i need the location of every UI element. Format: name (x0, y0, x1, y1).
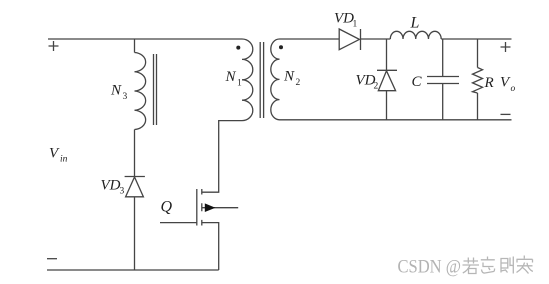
svg-text:VD: VD (101, 178, 121, 194)
wire: capacitor C bottom branch (442, 84, 444, 120)
svg-text:R: R (484, 75, 494, 91)
diode VD2 triangle (378, 71, 395, 91)
arrow of MOSFET Q (205, 203, 216, 212)
svg-text:1: 1 (237, 79, 242, 89)
wire: Q source to bottom rail (202, 223, 219, 270)
diode VD2 cathode bar (377, 69, 397, 71)
polarity dot N2 (279, 45, 283, 49)
wire: secondary bottom rail (280, 119, 512, 121)
plus sign: input (49, 41, 59, 51)
wire: gate lead (160, 222, 197, 224)
svg-text:Q: Q (161, 199, 173, 216)
plus sign: output (501, 42, 511, 52)
minus sign: input (47, 258, 57, 260)
transistor Q channel segments (201, 189, 203, 226)
wire: N1 bottom lead to MOSFET drain (202, 121, 242, 193)
minus sign: output (501, 113, 511, 115)
wire: resistor R bottom branch (477, 93, 479, 120)
winding N2 (transformer secondary) (271, 39, 280, 120)
svg-text:in: in (60, 155, 68, 165)
diode VD1 triangle (339, 29, 359, 50)
svg-text:N: N (110, 83, 122, 99)
svg-text:V: V (49, 146, 60, 162)
core of N3 (154, 54, 157, 125)
svg-text:2: 2 (374, 82, 379, 92)
svg-text:VD: VD (334, 11, 354, 27)
wire: N2 top lead to VD1 (280, 38, 340, 40)
svg-text:CSDN @: CSDN @ (398, 258, 462, 278)
diode VD3 cathode bar (125, 176, 145, 178)
transistor Q gate bar (196, 189, 198, 226)
winding N3 (135, 53, 146, 130)
wire: Q body lead (202, 207, 238, 209)
wire: capacitor C top branch (442, 39, 444, 77)
svg-text:N: N (225, 69, 237, 85)
watermark chinese characters (463, 256, 533, 274)
svg-text:2: 2 (296, 78, 301, 88)
wire: primary top rail (48, 38, 242, 40)
svg-text:o: o (511, 84, 516, 94)
resistor R zigzag (473, 68, 483, 94)
wire: resistor R top branch (477, 39, 479, 68)
wire: VD2 branch from top rail (386, 39, 388, 70)
svg-text:L: L (410, 15, 420, 32)
inductor L (390, 31, 441, 39)
svg-text:N: N (283, 69, 295, 85)
node: N3 stub from top rail (134, 39, 136, 53)
wire: VD1 cathode to L (361, 38, 391, 40)
svg-text:C: C (412, 74, 423, 90)
wire: primary bottom rail (47, 269, 219, 271)
diode VD1 cathode bar (360, 29, 362, 50)
winding N1 (transformer primary) (242, 39, 253, 121)
svg-text:V: V (500, 75, 511, 91)
diode VD3 triangle (126, 177, 144, 197)
polarity dot N1 (236, 46, 240, 50)
wire: VD3 anode to bottom rail (134, 197, 136, 270)
svg-text:3: 3 (120, 187, 125, 197)
svg-text:1: 1 (353, 20, 358, 30)
wire: L to output + terminal (441, 38, 511, 40)
wire: VD2 anode to bottom rail (386, 91, 388, 120)
capacitor C plates (427, 77, 459, 84)
wire: N3 bottom to VD3 (134, 130, 136, 177)
transformer core (260, 42, 263, 118)
svg-text:3: 3 (123, 92, 128, 102)
